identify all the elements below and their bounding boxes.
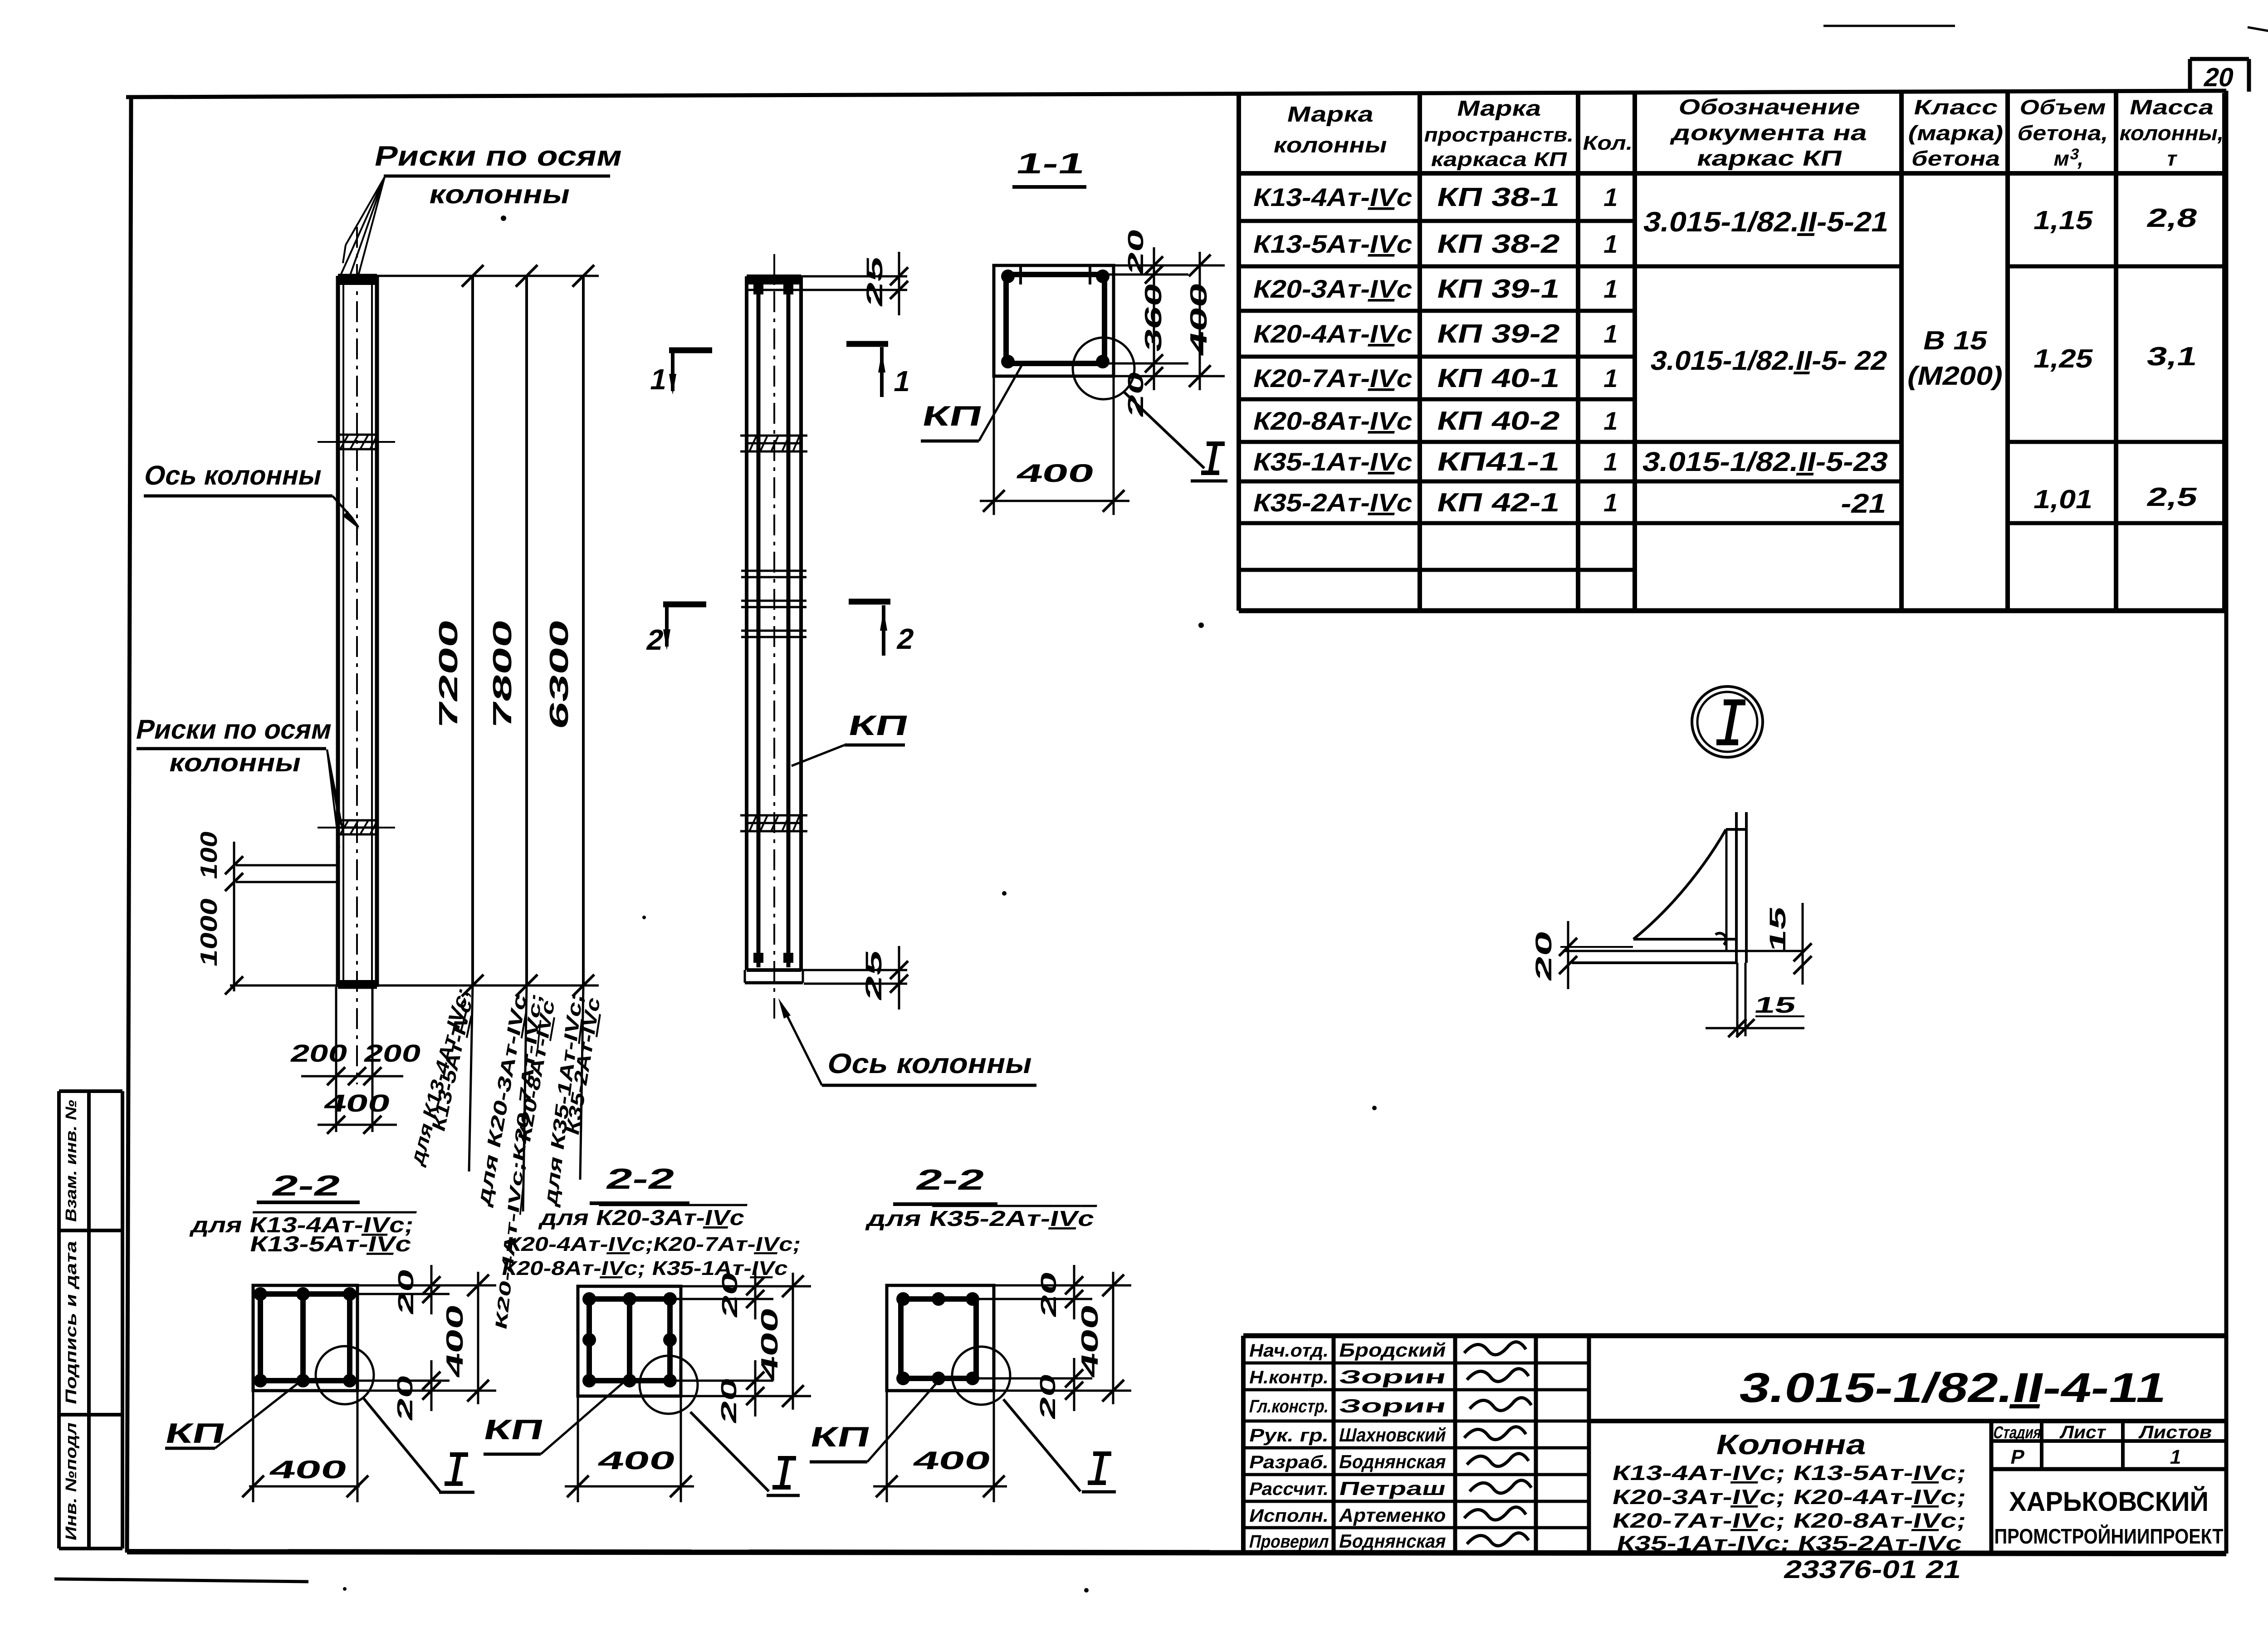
svg-text:3.015-1/82.II-5- 22: 3.015-1/82.II-5- 22 [1648,345,1890,376]
section mark 1 left [647,350,712,396]
svg-text:документа на: документа на [1670,121,1871,145]
detail I bracket vertical plate [1726,812,1746,963]
svg-text:20: 20 [718,1269,742,1320]
svg-text:К20-3Ат-IVс: К20-3Ат-IVс [1251,275,1415,303]
section 2-2 B detail circle [640,1356,698,1414]
section 2-2 B label KP [481,1380,626,1454]
svg-text:Шахновский: Шахновский [1337,1424,1448,1445]
svg-text:Нач.отд.: Нач.отд. [1247,1340,1331,1360]
svg-text:Стадия: Стадия [1992,1423,2043,1442]
svg-text:Ось колонны: Ось колонны [825,1048,1036,1079]
svg-text:1000: 1000 [196,895,222,969]
section 2-2 A detail circle [316,1346,374,1404]
label os kolonny bottom [778,998,1036,1085]
svg-text:К20-7Ат-IVс: К20-7Ат-IVс [1251,364,1415,392]
detail I dim 20 [1531,921,1633,989]
svg-text:КП 38-2: КП 38-2 [1434,230,1563,259]
svg-text:400: 400 [910,1446,993,1475]
section 1-1 bottom dim 400 [980,376,1129,515]
svg-text:20: 20 [1036,1269,1061,1319]
dim line extension below base 6300 [580,985,583,1180]
svg-text:(М200): (М200) [1905,362,2006,391]
section 2-2 C rebar ring [896,1292,979,1385]
svg-text:КП41-1: КП41-1 [1434,447,1563,476]
line below frame bottom [54,1579,308,1582]
svg-text:1,25: 1,25 [2031,344,2096,373]
rotated label dlya K20 [473,990,558,1332]
svg-text:К20-4Ат-IVс;К20-7Ат-IVс;: К20-4Ат-IVс;К20-7Ат-IVс; [504,1233,803,1255]
svg-text:3.015-1/82.II-5-23: 3.015-1/82.II-5-23 [1640,446,1891,477]
svg-text:400: 400 [442,1302,468,1380]
section 2-2 A right dims [350,1265,496,1423]
left margin stamp strip [59,1091,122,1549]
svg-text:бетона,: бетона, [2015,121,2111,144]
svg-text:К13-5Ат-IVс: К13-5Ат-IVс [1251,230,1415,258]
label KP section 1-1 [919,366,1022,441]
svg-text:К13-4Ат-IVс; К13-5Ат-IVс;: К13-4Ат-IVс; К13-5Ат-IVс; [1610,1461,1969,1484]
section 2-2 A leader to I [363,1397,474,1492]
section 2-2 C bottom dim 400 [873,1391,1007,1502]
svg-text:2-2: 2-2 [913,1163,988,1196]
svg-text:(марка): (марка) [1906,121,2006,144]
svg-text:3.015-1/82.II-4-11: 3.015-1/82.II-4-11 [1735,1364,2172,1411]
svg-text:для К20-3Ат-IVс: для К20-3Ат-IVс [538,1206,747,1230]
svg-text:25: 25 [861,947,886,1003]
detail circle section 1-1 [1073,338,1134,399]
section 2-2 A mark list [189,1213,416,1256]
detail I dim 15 right [1765,903,1812,985]
center column top risk line [747,289,801,291]
leader lines riski top [341,177,385,275]
left column upper splice hatch band [318,435,395,449]
svg-text:400: 400 [1186,280,1212,358]
left column centerline [356,227,358,1084]
center column tie pairs [741,571,807,637]
dim line 400 bottom left column [318,1090,397,1134]
svg-text:Проверил: Проверил [1247,1531,1331,1551]
svg-text:колонны: колонны [166,749,304,777]
svg-text:Боднянская: Боднянская [1337,1451,1448,1472]
dim line 200 200 [288,1040,424,1085]
svg-text:Подпись и дата: Подпись и дата [63,1239,80,1406]
left column lower risk lines [236,865,338,882]
svg-text:7800: 7800 [488,617,517,732]
svg-text:колонны: колонны [1271,133,1390,157]
svg-text:пространств.: пространств. [1422,124,1576,146]
svg-text:К35-2Ат-IVс: К35-2Ат-IVс [1251,489,1415,517]
kolonna box [1610,1421,1991,1555]
svg-text:ПРОМСТРОЙНИИПРОЕКТ: ПРОМСТРОЙНИИПРОЕКТ [1994,1524,2224,1548]
svg-text:Рук. гр.: Рук. гр. [1247,1425,1331,1445]
svg-text:Н.контр.: Н.контр. [1247,1367,1331,1387]
svg-text:23376-01 21: 23376-01 21 [1781,1555,1964,1583]
svg-text:К13-4Ат-IVс: К13-4Ат-IVс [1251,183,1415,211]
svg-text:400: 400 [1014,459,1097,487]
svg-text:20: 20 [1036,1371,1060,1421]
rotated label dlya K13 [407,983,476,1168]
center column rebar lines [753,284,793,967]
svg-text:200: 200 [362,1040,424,1067]
section 2-2 C outline [887,1285,994,1391]
dim line 7200 [434,265,484,996]
svg-text:400: 400 [1077,1302,1103,1380]
svg-text:6300: 6300 [545,617,574,732]
dim 100 1000 witness line [225,842,243,995]
svg-text:Лист: Лист [2058,1421,2108,1442]
top extension line [377,275,599,277]
svg-text:колонны: колонны [426,180,573,209]
section 2-2 B mark list [500,1206,803,1279]
svg-text:2,8: 2,8 [2144,204,2200,233]
svg-text:20: 20 [1531,928,1556,983]
section 2-2 C detail circle [952,1347,1010,1405]
scan specks [343,216,1377,1593]
stadia list listov grid [1991,1421,2226,1469]
section 2-2 A bottom dim 400 [242,1391,368,1502]
section mark 1 right [846,344,914,397]
svg-text:КП: КП [919,401,985,432]
section 2-2 A outline [253,1285,357,1391]
svg-text:20: 20 [1124,226,1148,277]
svg-text:К20-7Ат-IVс; К20-8Ат-IVс;: К20-7Ат-IVс; К20-8Ат-IVс; [1610,1509,1969,1532]
center column centerline [773,254,775,1019]
stray scan marks top right [1823,26,2268,34]
svg-text:КП 39-2: КП 39-2 [1434,319,1563,348]
section 1-1 rebar ring [1001,265,1110,368]
svg-text:15: 15 [1765,904,1790,955]
svg-text:Зорин: Зорин [1337,1366,1448,1387]
svg-text:Риски по осям: Риски по осям [372,141,626,172]
dim line 6300 [545,265,594,996]
svg-text:Разраб.: Разраб. [1247,1451,1331,1472]
svg-text:Объем: Объем [2018,95,2109,118]
svg-text:Риски по осям: Риски по осям [133,714,335,745]
signature table names [1337,1339,1448,1551]
section mark 2 right [849,602,917,656]
detail I shelf [1565,933,1803,963]
svg-text:400: 400 [595,1446,678,1475]
rotated label dlya K35 [540,990,604,1208]
svg-text:Артеменко: Артеменко [1337,1505,1448,1525]
dim line extension below base 7800 [523,985,527,1211]
svg-text:Кол.: Кол. [1581,132,1635,154]
svg-text:20: 20 [2201,63,2237,92]
svg-text:Боднянская: Боднянская [1337,1530,1448,1551]
section 2-2 B rebar ring [582,1292,677,1387]
section 2-2 A title [257,1169,360,1202]
svg-text:К20-3Ат-IVс; К20-4Ат-IVс;: К20-3Ат-IVс; К20-4Ат-IVс; [1610,1485,1969,1508]
svg-text:400: 400 [322,1090,393,1117]
detail I pin below [1737,963,1745,1036]
svg-text:КП: КП [807,1421,873,1453]
svg-text:200: 200 [288,1040,351,1067]
dim line extension below base 7200 [469,985,473,1171]
svg-text:колонны,: колонны, [2117,121,2227,144]
leader to detail I section 1-1 [1124,392,1227,481]
section mark 2 left [644,604,706,656]
svg-text:3,1: 3,1 [2144,342,2200,371]
svg-text:КП 40-1: КП 40-1 [1434,364,1563,393]
svg-text:В 15: В 15 [1921,326,1990,355]
svg-text:бетона: бетона [1909,147,2003,170]
center column splice band B [740,815,807,831]
svg-text:1,15: 1,15 [2031,206,2096,235]
svg-text:КП 42-1: КП 42-1 [1434,488,1563,517]
section 2-2 B right dims [670,1266,811,1426]
section 2-2 C title [893,1163,997,1204]
dim line 7800 [488,265,538,996]
section 2-2 B bottom dim 400 [565,1396,694,1502]
svg-text:КП: КП [481,1414,547,1446]
page number box 20 [2190,59,2249,92]
svg-text:7200: 7200 [434,617,463,732]
svg-text:Гл.констр.: Гл.констр. [1247,1396,1331,1416]
svg-text:каркаса КП: каркаса КП [1429,148,1569,170]
section 1-1 title [1012,147,1088,187]
svg-text:К35-1Ат-IVс; К35-2Ат-IVс: К35-1Ат-IVс; К35-2Ат-IVс [1615,1531,1965,1554]
svg-text:К35-1Ат-IVс: К35-1Ат-IVс [1251,448,1415,476]
svg-text:К20-4Ат-IVс: К20-4Ат-IVс [1251,320,1415,348]
section 2-2 B outline [578,1286,681,1396]
label riski po osyam kolonny top [372,141,626,209]
document number box [1589,1364,2226,1421]
center column outline [745,276,803,983]
svg-text:2,5: 2,5 [2144,483,2200,512]
svg-text:1-1: 1-1 [1013,147,1088,180]
svg-text:1,01: 1,01 [2031,485,2096,514]
organization box [1994,1486,2224,1548]
svg-text:КП 40-2: КП 40-2 [1434,407,1563,436]
section 2-2 C leader to I [1003,1399,1116,1492]
section 2-2 B title [590,1162,689,1203]
svg-text:Бродский: Бродский [1337,1339,1448,1360]
svg-text:Класс: Класс [1911,95,2000,118]
svg-text:К13-5Ат-IVс: К13-5Ат-IVс [248,1232,414,1256]
svg-text:Колонна: Колонна [1713,1429,1870,1461]
section 2-2 C label KP [807,1379,940,1462]
svg-text:100: 100 [196,828,222,882]
svg-text:К20-8Ат-IVс; К35-1Ат-IVс: К20-8Ат-IVс; К35-1Ат-IVс [500,1257,790,1279]
svg-text:КП 38-1: КП 38-1 [1434,183,1563,212]
label riski po osyam kolonny lower [133,714,335,777]
svg-text:для К35-2Ат-IVс: для К35-2Ат-IVс [865,1206,1097,1230]
svg-text:20: 20 [394,1266,418,1317]
section 2-2 B leader to I [690,1412,800,1495]
svg-text:2-2: 2-2 [603,1162,678,1195]
left column splice hatch band [318,820,395,834]
section 2-2 C mark list [865,1206,1097,1230]
svg-text:ХАРЬКОВСКИЙ: ХАРЬКОВСКИЙ [2009,1486,2209,1517]
svg-text:20: 20 [717,1375,741,1426]
dim 25 top center column [801,252,908,315]
svg-text:400: 400 [267,1456,350,1484]
svg-text:Инв. №подл: Инв. №подл [63,1421,80,1542]
svg-text:Марка: Марка [1285,102,1377,126]
svg-text:КП 39-1: КП 39-1 [1434,274,1563,304]
svg-text:Марка: Марка [1455,96,1545,120]
svg-text:Взам. инв. №: Взам. инв. № [63,1098,80,1224]
svg-text:каркас КП: каркас КП [1695,146,1845,170]
svg-text:Ось колонны: Ось колонны [142,460,325,490]
detail I balloon [1692,686,1763,757]
bottom extension below column [336,987,372,1132]
svg-text:К20-8Ат-IVс: К20-8Ат-IVс [1251,407,1415,435]
svg-text:25: 25 [862,254,887,309]
signature table labels [1247,1340,1331,1551]
svg-text:Масса: Масса [2127,95,2217,118]
svg-text:Рассчит.: Рассчит. [1247,1478,1331,1499]
label KP center column [792,710,911,766]
leader lines riski lower [327,750,344,848]
svg-text:Зорин: Зорин [1337,1395,1448,1416]
svg-text:-21: -21 [1838,488,1890,519]
svg-text:КП: КП [846,710,911,741]
svg-text:Исполн.: Исполн. [1247,1505,1331,1525]
title block outer [1243,1336,2226,1554]
section 1-1 outline [994,265,1114,376]
label os kolonny left [142,460,359,529]
signatures squiggles [1464,1342,1531,1546]
section 1-1 right dims [1105,226,1225,419]
svg-text:360: 360 [1140,280,1167,354]
svg-text:Петраш: Петраш [1337,1478,1448,1499]
svg-text:15: 15 [1752,992,1799,1018]
left column elevation outline [338,276,377,987]
section 2-2 C right dims [976,1265,1131,1421]
svg-text:400: 400 [757,1305,783,1383]
section 2-2 A rebar ring [254,1287,357,1387]
svg-text:3.015-1/82.II-5-21: 3.015-1/82.II-5-21 [1641,206,1892,238]
section 2-2 A label KP [162,1379,303,1449]
dim 25 bottom center column [801,946,908,1010]
svg-text:Обозначение: Обозначение [1677,95,1863,119]
detail I gusset curve [1633,829,1726,939]
detail I dim 15 bottom [1706,992,1804,1037]
svg-text:Листов: Листов [2137,1421,2214,1442]
svg-text:20: 20 [393,1372,417,1423]
signature table grid [1243,1336,1589,1554]
base extension line [230,985,599,987]
center column splice band A [740,436,807,451]
svg-text:2-2: 2-2 [269,1169,344,1202]
specification table [1239,93,2224,611]
